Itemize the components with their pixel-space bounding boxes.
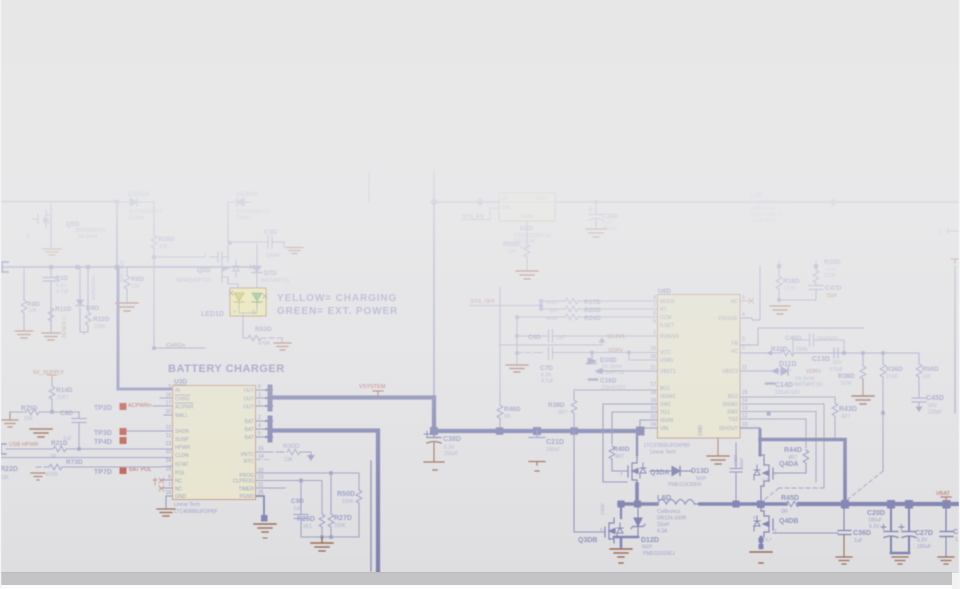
capacitor C45D bbox=[912, 398, 926, 411]
resistor R20D row bbox=[541, 306, 657, 314]
ground U3D GND pin bbox=[157, 496, 175, 516]
wire VDRV pin bbox=[629, 353, 657, 361]
IC U2D load switch bbox=[499, 193, 555, 221]
ground under R6D bbox=[116, 303, 138, 311]
diode D7D on vertical bbox=[250, 245, 262, 290]
resistor R75D bbox=[10, 405, 52, 422]
U3D right pin labels bbox=[233, 388, 255, 500]
resistor R36D bbox=[880, 353, 903, 471]
resistor R45D in bus bbox=[781, 495, 799, 515]
resistor R32D bbox=[771, 346, 919, 356]
ground under C28D bbox=[586, 229, 606, 237]
transistor Q4DA bbox=[754, 455, 773, 504]
resistor R14D bbox=[49, 381, 73, 412]
BAT pin bus bar bbox=[256, 421, 266, 437]
wire D9D R12D join bbox=[80, 313, 88, 334]
ground under R55D bbox=[516, 271, 538, 279]
capacitor C1D bbox=[43, 267, 59, 330]
transistor Q3DB bbox=[605, 518, 623, 543]
U6D right pin labels bbox=[718, 299, 739, 432]
capacitor C6D bbox=[517, 330, 657, 342]
capacitor C35D bbox=[730, 443, 742, 502]
connector stub left edge y267 bbox=[2, 262, 8, 272]
inductor L6D bbox=[657, 500, 700, 505]
diode D9D zener bbox=[76, 267, 84, 313]
wire VIN bus thick bbox=[434, 429, 640, 433]
diode D13D bbox=[650, 467, 692, 476]
wire ISVIN VIN stubs bbox=[640, 420, 657, 428]
wire Q3DB drain to SW1 bbox=[620, 508, 622, 518]
LED LED1D box bbox=[229, 288, 267, 316]
U3D pin numbers right bbox=[258, 384, 264, 496]
ground under R38D bbox=[852, 396, 874, 404]
diode D24DB bbox=[119, 198, 154, 206]
wire output bus thick bbox=[700, 502, 786, 506]
capacitor C36D bbox=[838, 508, 851, 556]
resistor R55D bbox=[503, 221, 530, 270]
transistor Q2D bbox=[210, 241, 239, 290]
wire PROG net bbox=[256, 473, 359, 490]
wire vertical x434 top bbox=[433, 171, 435, 397]
resistor R25D bbox=[297, 514, 325, 537]
U3D left pin stubs bbox=[160, 398, 172, 488]
ground stack mid bbox=[30, 429, 52, 437]
resistor R27D bbox=[328, 473, 352, 537]
resistor R12D bbox=[85, 267, 110, 332]
ground under R8D bbox=[15, 331, 33, 338]
wire PGND down bbox=[254, 496, 276, 538]
resistor R24D row bbox=[517, 314, 657, 322]
node dots VC line bbox=[842, 351, 846, 355]
capacitor C7D bbox=[517, 347, 657, 359]
resistor R38D bbox=[838, 353, 866, 395]
resistor R53D bbox=[239, 308, 282, 347]
ground C20D C27D bbox=[892, 557, 908, 564]
capacitor C46D bbox=[793, 334, 844, 353]
ground under x517 bbox=[506, 365, 528, 372]
U6D left pin labels bbox=[660, 299, 680, 432]
wire RUN feed bbox=[500, 344, 602, 346]
U3D pin numbers left bbox=[165, 384, 171, 496]
resistor R11D bbox=[48, 306, 71, 332]
wire BG1 chain to Q3DB gate bbox=[574, 429, 605, 532]
wire vertical right edge x955 bbox=[954, 266, 956, 413]
ground C36D bbox=[836, 557, 852, 564]
ground under R53D bbox=[274, 343, 291, 350]
resistor R17D row bbox=[541, 298, 657, 306]
resistor R73D on ISTAT line bbox=[36, 459, 172, 478]
no-connect NC pin9 bbox=[740, 299, 754, 304]
resistor R6D bbox=[124, 267, 144, 302]
capacitor C3D bbox=[228, 202, 284, 248]
wire CLPROG net bbox=[256, 481, 322, 515]
wire VSENSE route bbox=[740, 267, 760, 320]
resistor R46D bbox=[497, 287, 521, 429]
resistor R40D bbox=[609, 446, 630, 471]
wire SYS_OFF bbox=[470, 305, 541, 307]
wire vertical link OUT to VIN bus bbox=[432, 398, 436, 432]
U6D pin numbers bbox=[650, 295, 656, 428]
resistor R43D bbox=[832, 397, 857, 438]
U3D left pin labels bbox=[175, 388, 194, 500]
wire vertical x541 rows join bbox=[540, 301, 542, 309]
ground Q3DB bbox=[610, 549, 632, 563]
wire rail y=202 bbox=[434, 201, 958, 203]
wire VC line bbox=[740, 352, 781, 354]
ground Q4DB bbox=[750, 552, 772, 563]
transistor Q4DB bbox=[754, 508, 773, 537]
wire Q2D gate from R28D bbox=[154, 257, 205, 348]
capacitor C28D bbox=[588, 200, 603, 228]
wire Q4DB gate line bbox=[773, 532, 838, 534]
OUT pin bus bar bbox=[256, 390, 266, 406]
resistor R21D on HPWR line bbox=[1, 440, 172, 460]
IC U6D buck-boost controller bbox=[658, 288, 741, 438]
wire ISSW2 SW2 TG2 chains bbox=[740, 404, 824, 488]
capacitor C8D bbox=[50, 410, 86, 447]
resistor R44D bbox=[773, 447, 809, 473]
wire BG2 long bbox=[740, 396, 835, 398]
diode D10D bbox=[586, 353, 596, 365]
wire SW1 node thick bbox=[619, 484, 657, 504]
wire rail y=267 bbox=[0, 266, 252, 268]
IC U3D battery charger bbox=[173, 379, 256, 500]
wire BG1 bbox=[574, 389, 657, 391]
node junctions on rail 267 bbox=[49, 265, 53, 269]
capacitor C9D bbox=[294, 481, 308, 538]
capacitor C20D electrolytic bbox=[881, 508, 898, 553]
wire vertical x517 bbox=[516, 317, 518, 364]
transistor Q3DA bbox=[628, 455, 646, 484]
transistor Q5D bbox=[33, 202, 51, 248]
wire FB network top bbox=[740, 328, 863, 345]
ground C22D bbox=[938, 557, 954, 564]
node arrow 3V3 bbox=[600, 338, 605, 345]
capacitor C22D partial right bbox=[940, 508, 953, 556]
ground under R11D bbox=[42, 333, 60, 340]
tap red right edge bbox=[951, 259, 959, 263]
capacitor C47D bbox=[809, 286, 823, 301]
wire y266 sense feed bbox=[760, 261, 816, 272]
resistor R30D NTC bbox=[256, 443, 314, 463]
connector right edge pin2 bbox=[948, 228, 958, 234]
wire OUT bus thick bbox=[272, 395, 434, 399]
wire bottom join y537 bbox=[301, 536, 359, 538]
capacitor C16D plate bbox=[589, 378, 597, 380]
ground left of R75D bbox=[2, 412, 18, 427]
dashed sense line right bbox=[847, 471, 883, 500]
wire C20D C27D join bbox=[891, 552, 909, 555]
resistor R15D bbox=[813, 259, 841, 285]
wire CHRGn bbox=[154, 347, 205, 349]
ground C3D sideways bbox=[286, 248, 303, 254]
wire vertical x369 bbox=[368, 172, 370, 201]
ground bottom join bbox=[311, 537, 333, 551]
wire VBST1 with arrow bbox=[596, 369, 657, 374]
wire Q4DB source down bbox=[760, 537, 763, 548]
capacitor C14D plate bbox=[766, 382, 774, 384]
resistor R50D bbox=[337, 490, 362, 537]
no-connect X pins 6 7 bbox=[153, 478, 164, 491]
wire join R16D C47D bbox=[779, 299, 816, 301]
edge slivers bbox=[0, 0, 1, 589]
node corner x117 y202 bbox=[115, 200, 119, 204]
resistor R8D bbox=[21, 267, 40, 330]
ground small mid-left bbox=[31, 473, 45, 480]
resistor R39D bbox=[548, 390, 577, 429]
wire thin vertical x371 bbox=[370, 461, 372, 571]
ground U6D GND pin bbox=[707, 438, 729, 464]
ground under Q5D bbox=[43, 249, 61, 255]
diode D24DA bbox=[228, 198, 252, 206]
wire ISVOUT bbox=[740, 427, 760, 429]
wire top-left box outline bbox=[0, 202, 117, 268]
wire ISVOUT node thick bbox=[759, 430, 762, 455]
bottom gray bar bbox=[0, 573, 960, 586]
dashed sense line left bbox=[764, 488, 779, 500]
wire CLDN long bbox=[0, 457, 172, 459]
wire ISSW1 chain bbox=[603, 404, 657, 482]
resistor R50D right bbox=[916, 353, 939, 397]
ground under R16D bbox=[770, 306, 790, 314]
capacitor C21D bbox=[529, 431, 545, 471]
capacitor C38D electrolytic bbox=[424, 431, 444, 470]
wire TIMER stub bbox=[256, 487, 285, 489]
resistor R16D bbox=[776, 266, 800, 300]
resistor R28D bbox=[151, 202, 175, 257]
wire Q3DA drain to bus bbox=[636, 433, 638, 455]
capacitor C27D electrolytic bbox=[899, 508, 916, 553]
diode D11D bbox=[740, 367, 788, 375]
wire thick vertical feed to U3D IN bbox=[118, 267, 172, 389]
diode D12D zener bbox=[631, 508, 645, 537]
wire Q3DB source node bbox=[614, 537, 638, 547]
wire BAT bus thick down to bottom bbox=[272, 431, 378, 572]
wire TG1 chain to R40D bbox=[612, 412, 657, 444]
